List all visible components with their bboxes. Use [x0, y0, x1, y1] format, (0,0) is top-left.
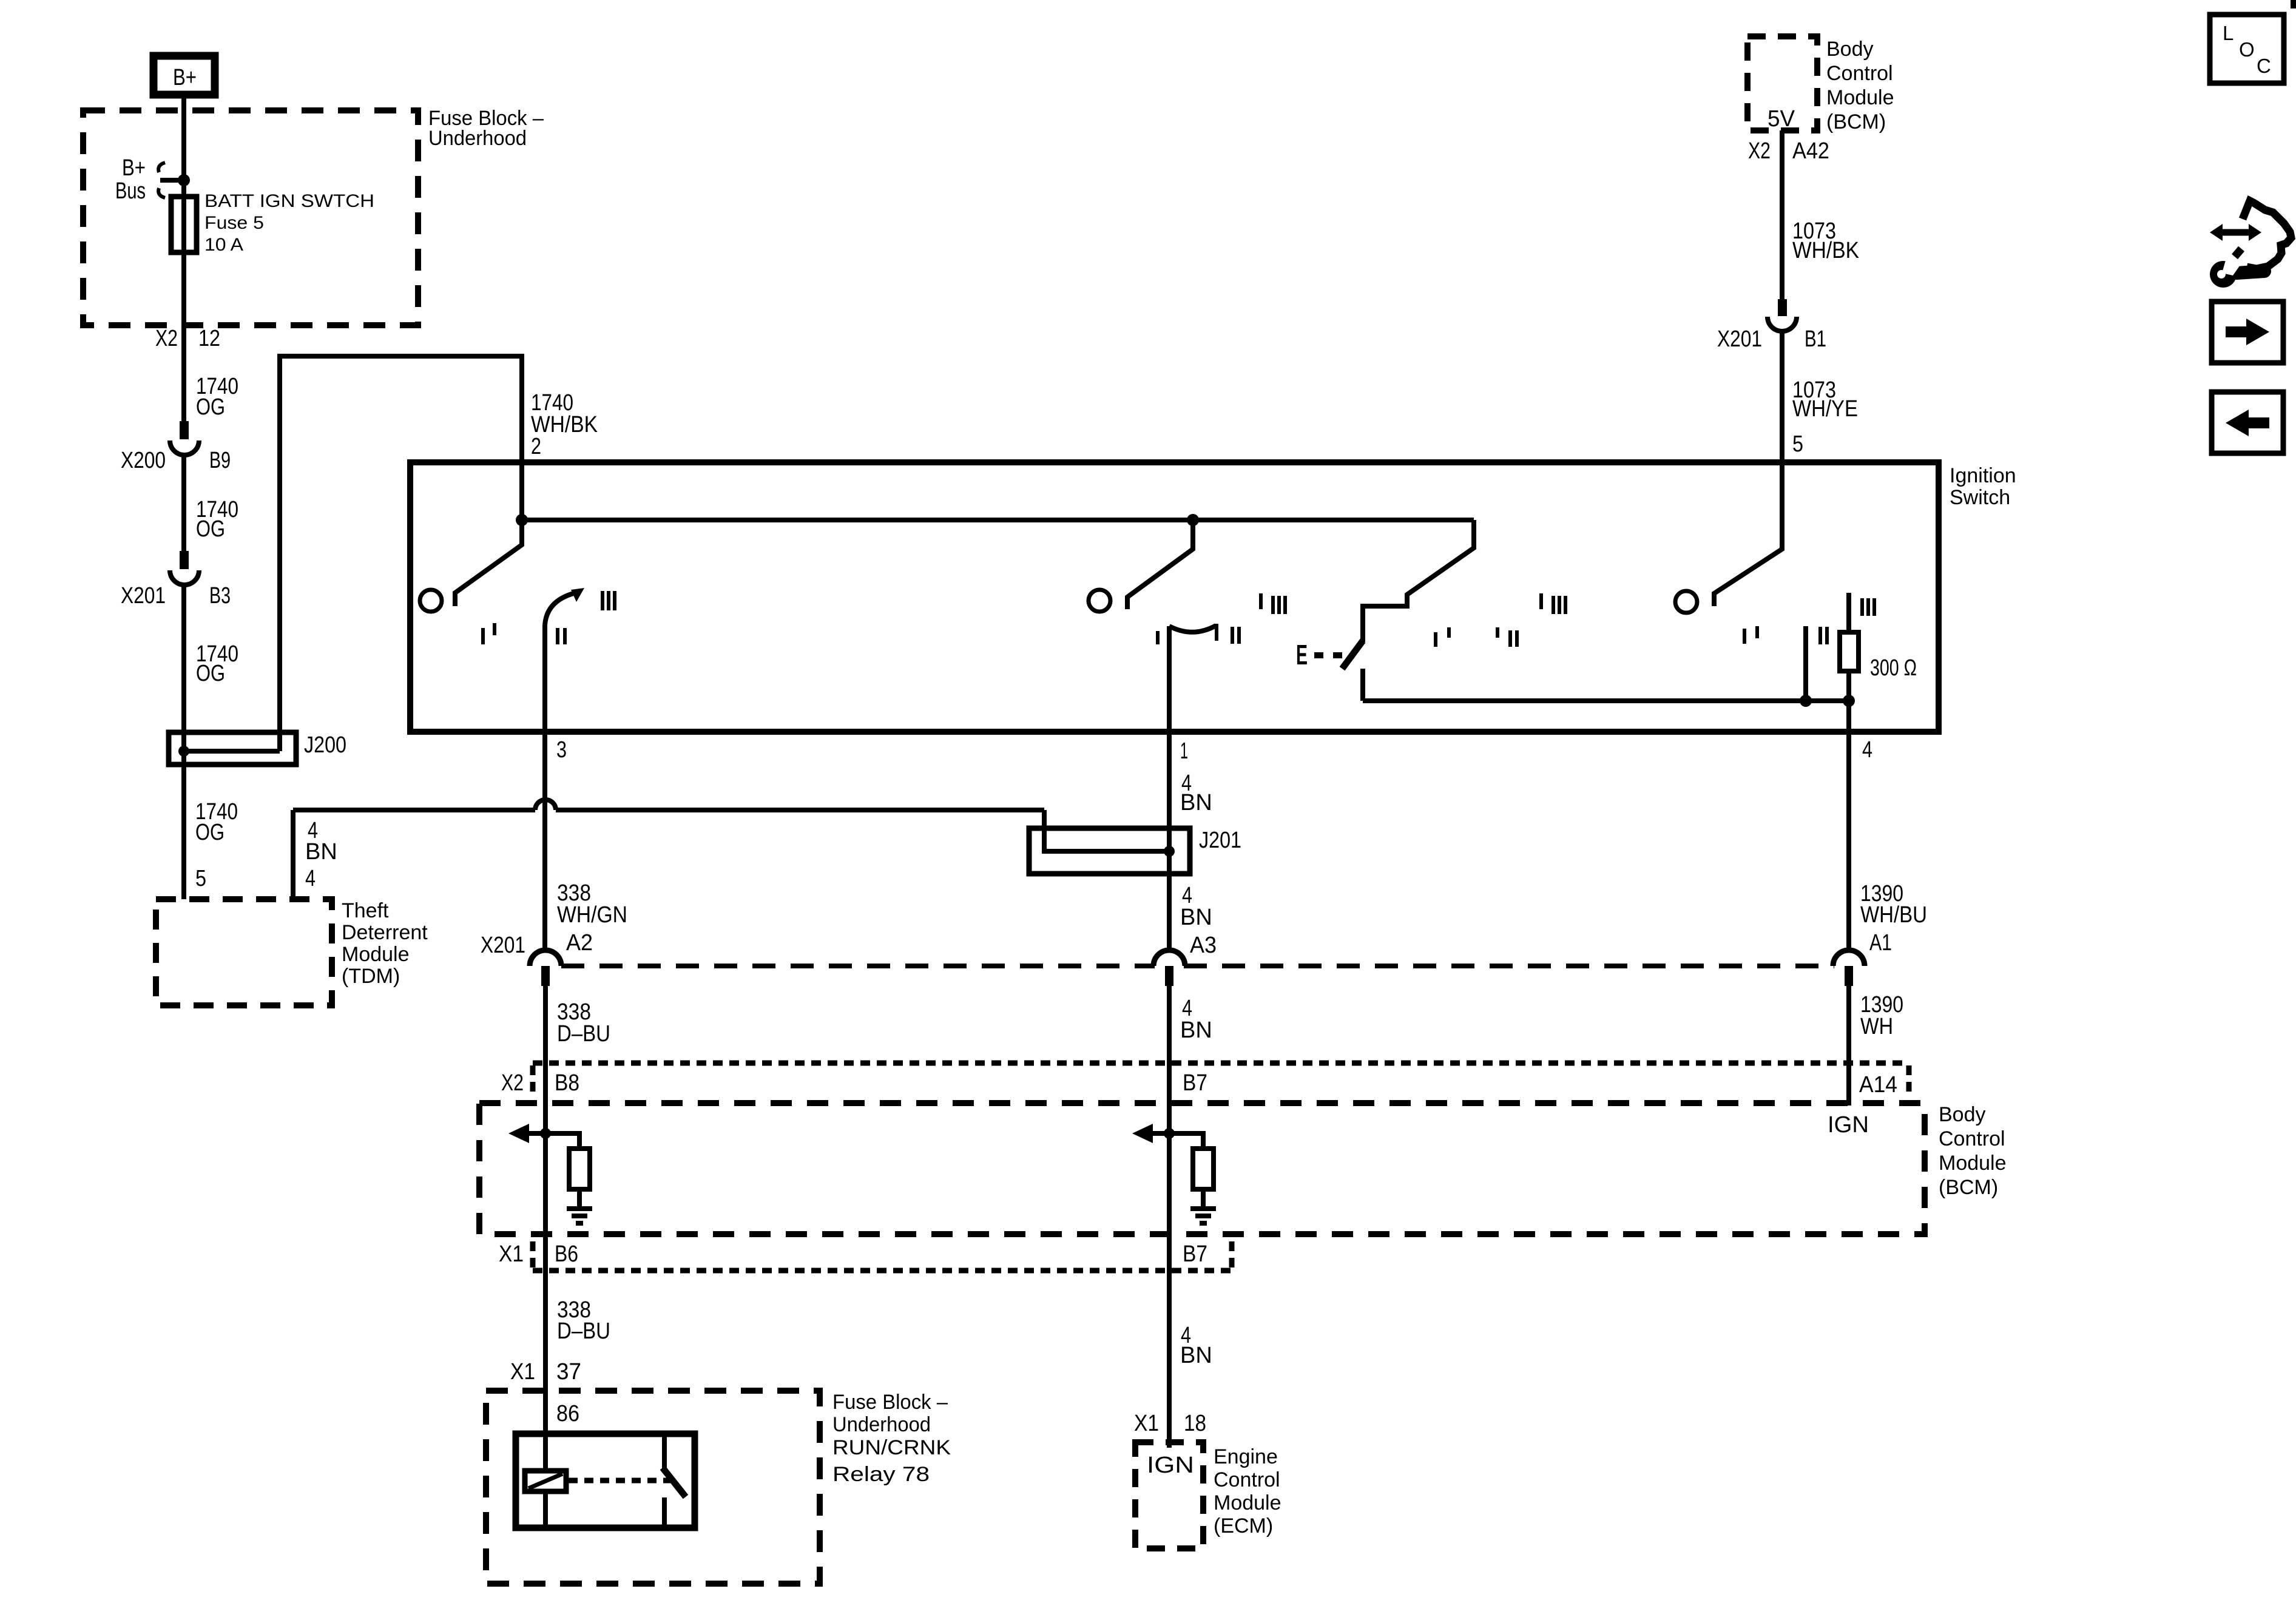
svg-text:WH: WH — [1860, 1014, 1893, 1039]
svg-text:B+: B+ — [122, 155, 146, 181]
svg-text:5: 5 — [195, 866, 206, 891]
svg-text:Module: Module — [1214, 1491, 1281, 1514]
svg-text:Control: Control — [1826, 62, 1893, 85]
svg-text:J200: J200 — [304, 732, 346, 758]
svg-text:Ignition: Ignition — [1950, 464, 2016, 487]
svg-text:BATT IGN SWTCH: BATT IGN SWTCH — [204, 191, 374, 211]
svg-text:J201: J201 — [1199, 828, 1241, 853]
svg-text:X201: X201 — [481, 933, 525, 958]
svg-text:Deterrent: Deterrent — [342, 921, 428, 944]
svg-text:D–BU: D–BU — [557, 1318, 610, 1344]
svg-text:Relay 78: Relay 78 — [832, 1463, 930, 1486]
svg-text:X2: X2 — [501, 1070, 524, 1096]
svg-text:B3: B3 — [209, 583, 231, 609]
svg-text:C: C — [2257, 55, 2271, 77]
svg-text:1: 1 — [1180, 738, 1188, 764]
svg-text:A2: A2 — [566, 930, 593, 956]
svg-text:3: 3 — [556, 737, 567, 763]
svg-text:37: 37 — [556, 1359, 581, 1385]
svg-text:IGN: IGN — [1147, 1453, 1194, 1478]
svg-text:5: 5 — [1792, 431, 1803, 457]
svg-text:Underhood: Underhood — [832, 1413, 931, 1436]
svg-text:(BCM): (BCM) — [1939, 1176, 1998, 1199]
svg-text:18: 18 — [1184, 1411, 1206, 1436]
svg-text:4: 4 — [305, 866, 316, 891]
svg-text:300 Ω: 300 Ω — [1870, 655, 1917, 681]
svg-text:X200: X200 — [121, 448, 166, 473]
svg-text:Engine: Engine — [1214, 1445, 1278, 1468]
svg-text:10 A: 10 A — [204, 235, 243, 255]
svg-text:Fuse Block –: Fuse Block – — [832, 1391, 948, 1414]
svg-text:Body: Body — [1939, 1103, 1986, 1126]
svg-text:OG: OG — [196, 516, 225, 542]
svg-text:4: 4 — [1862, 737, 1872, 763]
svg-text:WH/BU: WH/BU — [1860, 902, 1927, 928]
svg-text:X201: X201 — [1717, 326, 1762, 352]
svg-text:Control: Control — [1939, 1127, 2005, 1150]
svg-text:(BCM): (BCM) — [1826, 110, 1886, 133]
svg-text:B7: B7 — [1183, 1070, 1207, 1096]
svg-text:RUN/CRNK: RUN/CRNK — [832, 1436, 951, 1459]
svg-text:12: 12 — [198, 326, 220, 351]
svg-text:Module: Module — [342, 943, 410, 966]
svg-text:X1: X1 — [499, 1241, 524, 1267]
svg-text:B6: B6 — [555, 1241, 578, 1267]
svg-text:Body: Body — [1826, 38, 1874, 61]
svg-text:B9: B9 — [209, 448, 231, 473]
svg-text:Fuse 5: Fuse 5 — [204, 213, 264, 233]
svg-text:B8: B8 — [555, 1070, 579, 1096]
svg-text:A3: A3 — [1190, 933, 1217, 958]
svg-text:B1: B1 — [1805, 326, 1826, 352]
svg-text:OG: OG — [196, 394, 225, 420]
svg-text:OG: OG — [196, 661, 225, 686]
svg-text:L: L — [2223, 22, 2234, 44]
svg-text:WH/GN: WH/GN — [557, 902, 627, 928]
svg-text:B+: B+ — [173, 65, 197, 90]
svg-text:X2: X2 — [155, 326, 178, 351]
svg-text:86: 86 — [556, 1401, 579, 1426]
svg-text:IGN: IGN — [1828, 1112, 1869, 1138]
svg-text:Module: Module — [1939, 1152, 2007, 1175]
svg-text:WH/YE: WH/YE — [1792, 396, 1858, 422]
svg-text:X2: X2 — [1748, 138, 1771, 164]
svg-text:X1: X1 — [1134, 1411, 1159, 1436]
svg-text:B7: B7 — [1183, 1241, 1207, 1267]
svg-text:O: O — [2239, 38, 2255, 61]
svg-text:BN: BN — [305, 839, 337, 865]
svg-text:Bus: Bus — [115, 178, 146, 204]
svg-text:BN: BN — [1180, 1343, 1212, 1368]
svg-text:D–BU: D–BU — [557, 1021, 610, 1047]
svg-text:(TDM): (TDM) — [342, 965, 400, 988]
svg-text:BN: BN — [1180, 790, 1212, 815]
svg-text:WH/BK: WH/BK — [1792, 238, 1859, 263]
svg-text:E: E — [1296, 639, 1308, 670]
svg-text:BN: BN — [1180, 1018, 1212, 1043]
svg-text:(ECM): (ECM) — [1214, 1514, 1273, 1538]
svg-text:A14: A14 — [1859, 1072, 1897, 1098]
svg-text:BN: BN — [1180, 905, 1212, 930]
svg-text:Underhood: Underhood — [428, 127, 527, 150]
svg-text:X1: X1 — [510, 1359, 535, 1385]
svg-text:Theft: Theft — [342, 899, 389, 922]
svg-text:5V: 5V — [1768, 106, 1795, 132]
svg-text:Control: Control — [1214, 1468, 1280, 1491]
svg-text:A1: A1 — [1869, 930, 1892, 956]
svg-text:OG: OG — [195, 820, 225, 845]
svg-text:Module: Module — [1826, 86, 1894, 109]
svg-text:Switch: Switch — [1950, 486, 2010, 509]
svg-text:X201: X201 — [121, 583, 166, 609]
svg-text:A42: A42 — [1792, 138, 1829, 164]
svg-text:2: 2 — [531, 434, 541, 459]
